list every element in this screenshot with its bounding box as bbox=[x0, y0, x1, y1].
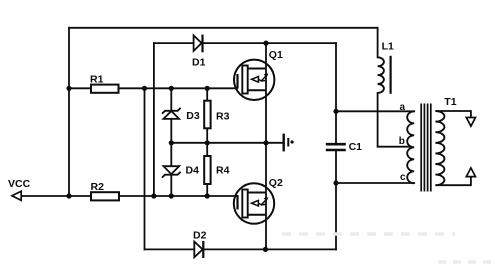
watermark trace upper bbox=[282, 232, 455, 236]
wire secondary bottom lead bbox=[435, 178, 471, 186]
wire line A (R1 to bottom rail) bbox=[144, 88, 146, 249]
svg-text:D4: D4 bbox=[186, 164, 200, 176]
resistor R1 bbox=[91, 85, 119, 93]
svg-text:Q1: Q1 bbox=[269, 49, 283, 61]
node c junction bbox=[333, 180, 338, 185]
node R3-top bbox=[205, 86, 210, 91]
transformer T1 core bbox=[421, 104, 431, 192]
mosfet Q1 bbox=[234, 60, 274, 100]
wire right vertical lower (C1 to bottom rail) bbox=[335, 151, 337, 249]
node Q1-drain bbox=[263, 41, 268, 46]
node R3-R4 mid bbox=[205, 140, 210, 145]
wire Q1 drain-source vertical bbox=[265, 43, 267, 143]
svg-text:L1: L1 bbox=[382, 40, 394, 52]
VCC arrow bbox=[12, 191, 21, 200]
svg-text:D2: D2 bbox=[193, 229, 207, 241]
svg-text:R3: R3 bbox=[216, 111, 230, 123]
wire L1 bottom lead to tap b bbox=[378, 93, 410, 147]
svg-text:C1: C1 bbox=[349, 141, 363, 153]
svg-text:Q2: Q2 bbox=[269, 177, 283, 189]
secondary output arrow down bbox=[466, 118, 475, 127]
wire R1 gate line bbox=[69, 87, 237, 89]
svg-text:c: c bbox=[400, 172, 406, 183]
node R4-bottom bbox=[205, 193, 210, 198]
inductor L1 bbox=[378, 56, 391, 94]
wire D3 D4 branch bbox=[170, 88, 172, 196]
diode D2 bbox=[194, 241, 203, 258]
transformer T1 primary winding bbox=[407, 111, 414, 183]
svg-text:D1: D1 bbox=[192, 56, 206, 68]
wire node c to transformer bbox=[336, 182, 414, 184]
svg-text:R4: R4 bbox=[216, 164, 230, 176]
resistor R2 bbox=[91, 192, 119, 200]
node lineB-VCC bbox=[151, 193, 156, 198]
resistor R4 bbox=[204, 156, 210, 184]
zener D3 bbox=[162, 108, 181, 119]
diode D1 bbox=[194, 35, 203, 53]
svg-text:b: b bbox=[399, 136, 405, 147]
node R1-left bbox=[66, 86, 71, 91]
node D3-D4 mid bbox=[169, 140, 174, 145]
wire outer left edge bbox=[68, 28, 70, 196]
wire top rail bbox=[69, 27, 378, 29]
zener D4 bbox=[162, 166, 181, 177]
wire right vertical upper (to node a) bbox=[335, 43, 337, 143]
svg-text:a: a bbox=[400, 102, 406, 113]
wire inner top rail bbox=[154, 42, 336, 44]
wire Q2 drain-source vertical bbox=[265, 143, 267, 250]
svg-text:R2: R2 bbox=[91, 181, 105, 193]
secondary output arrow up bbox=[466, 168, 475, 177]
transformer T1 secondary winding bbox=[435, 111, 444, 185]
svg-text:R1: R1 bbox=[90, 73, 104, 85]
mosfet Q2 bbox=[234, 183, 274, 223]
wire bottom rail bbox=[145, 248, 337, 250]
resistor R3 bbox=[204, 101, 210, 129]
wire VCC line bbox=[13, 195, 237, 197]
svg-text:T1: T1 bbox=[444, 96, 456, 108]
wire R3 R4 branch bbox=[206, 88, 208, 196]
node VCC-left bbox=[66, 193, 71, 198]
svg-text:VCC: VCC bbox=[8, 178, 31, 190]
svg-text:D3: D3 bbox=[186, 110, 200, 122]
wire middle node line bbox=[171, 142, 283, 144]
node D3-top bbox=[169, 86, 174, 91]
node a junction bbox=[333, 109, 338, 114]
node D4-bottom bbox=[169, 193, 174, 198]
wire L1 top lead bbox=[377, 28, 379, 58]
node Q1-source mid bbox=[263, 140, 268, 145]
node Q2-source bbox=[263, 247, 268, 252]
capacitor C1 bbox=[326, 144, 346, 150]
wire secondary top lead bbox=[435, 111, 471, 117]
node lineA-R1 bbox=[142, 86, 147, 91]
wire node a to transformer bbox=[336, 110, 414, 112]
output terminal bars bbox=[284, 134, 294, 152]
wire line B (D1 anode to VCC line) bbox=[153, 43, 155, 196]
watermark trace lower bbox=[438, 260, 492, 264]
inductor L1 core bar bbox=[390, 56, 392, 94]
